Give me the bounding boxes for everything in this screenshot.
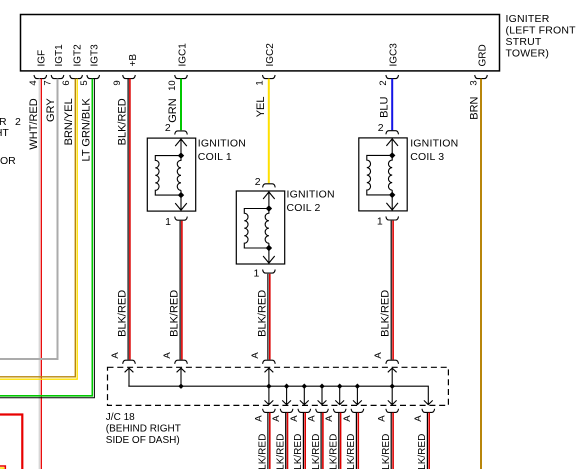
svg-text:IGT3: IGT3 (90, 44, 101, 67)
J/C 18 bottom exit at x=322: down arrow, connector, A label (307, 386, 329, 422)
ignition coil 3 box (359, 138, 407, 211)
igniter name label (506, 13, 577, 60)
wire BLK/RED from coil 3 pin 1 to J/C 18 (380, 221, 393, 360)
svg-text:10: 10 (167, 80, 178, 91)
igniter pin IGC3 (378, 43, 400, 86)
svg-text:IGC1: IGC1 (177, 43, 188, 67)
svg-text:BLK/RED: BLK/RED (169, 290, 181, 337)
svg-text:YEL: YEL (255, 97, 267, 118)
ignition coil 2 primary winding (244, 209, 269, 249)
svg-text:BLK/RED: BLK/RED (417, 434, 428, 469)
wire BLU from pin IGC3 to ignition coil 3 (379, 79, 393, 131)
J/C 18 bottom exit at x=304: down arrow, connector, A label (289, 386, 311, 422)
svg-text:COIL 2: COIL 2 (287, 202, 321, 214)
wire GRY from pin IGT1 (turns left, exits left edge) (0, 79, 58, 359)
wire YEL at bottom left corner (0, 466, 5, 469)
svg-text:BLK/RED: BLK/RED (311, 434, 322, 469)
igniter pin IGT3 (79, 44, 101, 86)
svg-text:GRN: GRN (167, 98, 179, 123)
igniter pin IGT1 (43, 44, 65, 86)
svg-text:(BEHIND RIGHT: (BEHIND RIGHT (106, 424, 181, 435)
svg-text:A: A (110, 352, 121, 359)
ignition coil 2 junction nodes (266, 205, 272, 251)
svg-text:BRN/YEL: BRN/YEL (63, 98, 75, 145)
svg-text:1: 1 (165, 216, 171, 228)
igniter pin IGC1 (167, 43, 188, 91)
J/C 18 bottom exit at x=269: down arrow, connector, A label (253, 386, 275, 422)
wire BLK/RED exiting J/C 18 at x=287 (275, 413, 287, 469)
svg-text:2: 2 (255, 176, 261, 188)
ignition coil 3 pin 1 connector (377, 215, 399, 227)
ignition coil 3 label (410, 138, 458, 163)
igniter pin IGF (28, 50, 48, 86)
igniter pin GRD (469, 44, 489, 85)
wire LT GRN/BLK from pin IGT3 (green+black pair, turns left) (0, 79, 94, 398)
svg-text:BLK/RED: BLK/RED (380, 290, 392, 337)
svg-text:A: A (307, 415, 318, 422)
svg-text:2: 2 (15, 116, 21, 128)
svg-text:+B: +B (128, 54, 139, 67)
wire BLK/RED exiting J/C 18 at x=269 (258, 413, 270, 469)
svg-text:J/C 18: J/C 18 (106, 412, 135, 423)
ignition coil 3 secondary winding with arrows (386, 138, 398, 211)
J/C 18 bottom exit at x=340: down arrow, connector, A label (324, 386, 346, 422)
svg-text:COIL 1: COIL 1 (198, 151, 232, 163)
J/C 18 internal bus wire (128, 386, 428, 404)
ignition coil 1 junction nodes (178, 152, 184, 198)
wire YEL from pin IGC2 to ignition coil 2 (255, 79, 269, 184)
ignition coil 2 label (287, 189, 335, 214)
svg-text:IGT1: IGT1 (54, 44, 65, 67)
svg-text:9: 9 (112, 80, 123, 85)
svg-text:BLK/RED: BLK/RED (116, 98, 128, 145)
svg-text:4: 4 (28, 80, 39, 85)
J/C 18 bottom exit at x=287: down arrow, connector, A label (271, 386, 293, 422)
wire BLK/RED from coil 1 pin 1 to J/C 18 (169, 221, 182, 360)
svg-text:IGC2: IGC2 (265, 43, 276, 67)
svg-text:IGT2: IGT2 (72, 44, 83, 67)
svg-text:IGC3: IGC3 (389, 43, 400, 67)
wire BRN/YEL from pin IGT2 (gold+yellow pair, turns left) (0, 79, 77, 380)
svg-text:A: A (342, 415, 353, 422)
svg-text:A: A (373, 352, 384, 359)
svg-text:A: A (250, 352, 261, 359)
wire GRN from pin IGC1 to ignition coil 1 (167, 79, 181, 131)
ignition coil 1 pin 2 connector (165, 122, 187, 135)
svg-text:BLK/RED: BLK/RED (329, 434, 340, 469)
J/C 18 top entry at x=181: connector, A label, up arrow (162, 352, 187, 387)
svg-text:TOWER): TOWER) (506, 48, 550, 60)
J/C 18 bottom exit at x=357: down arrow, connector, A label (342, 386, 364, 422)
svg-text:IGF: IGF (37, 50, 48, 67)
wire BLK/RED exiting J/C 18 at x=392 (381, 413, 393, 469)
ignition coil 3 junction nodes (389, 152, 395, 198)
igniter pin +B (112, 54, 139, 86)
svg-text:A: A (271, 415, 282, 422)
svg-text:1: 1 (377, 215, 383, 227)
svg-text:5: 5 (79, 80, 90, 85)
ignition coil 1 secondary winding with arrows (175, 138, 187, 211)
wire BLK/RED exiting J/C 18 at x=428 (417, 413, 429, 469)
svg-text:A: A (289, 415, 300, 422)
svg-text:7: 7 (43, 80, 54, 85)
J/C 18 bus junction dots (178, 384, 395, 389)
J/C 18 bottom exit at x=392: down arrow, connector, A label (377, 386, 399, 422)
J/C 18 bottom exit at x=428: down arrow, connector, A label (413, 400, 435, 421)
ignition coil 3 primary winding (367, 155, 392, 195)
svg-text:BRN: BRN (469, 96, 481, 119)
svg-text:IGNITER: IGNITER (506, 13, 550, 25)
svg-text:3: 3 (469, 80, 480, 85)
svg-text:IGNITION: IGNITION (410, 138, 458, 150)
svg-text:BLK/RED: BLK/RED (117, 290, 129, 337)
svg-text:STRUT: STRUT (506, 36, 542, 48)
ignition coil 1 primary winding (155, 156, 181, 196)
ignition coil 3 pin 2 connector (378, 122, 399, 135)
ignition coil 2 pin 2 connector (255, 176, 275, 188)
wire RED entering at left edge, turning down to bottom (0, 415, 22, 469)
wire WHT/RED from pin IGF (white+red pair, straight to bottom) (28, 79, 41, 469)
svg-text:BLK/RED: BLK/RED (293, 434, 304, 469)
svg-text:WHT/RED: WHT/RED (28, 98, 40, 149)
svg-text:LT GRN/BLK: LT GRN/BLK (81, 98, 93, 162)
ignition coil 1 pin 1 connector (165, 216, 187, 228)
svg-text:1: 1 (255, 80, 266, 85)
svg-text:IGNITION: IGNITION (198, 138, 246, 150)
wire BRN from pin GRD straight to bottom edge (469, 79, 482, 469)
svg-text:COIL 3: COIL 3 (410, 151, 444, 163)
svg-text:A: A (377, 415, 388, 422)
J/C 18 top entry at x=392: connector, A label, up arrow (373, 352, 398, 387)
ignition coil 2 box (236, 191, 284, 264)
wire BLK/RED from coil 2 pin 1 to J/C 18 (256, 274, 269, 360)
svg-text:GRY: GRY (45, 98, 57, 122)
svg-text:A: A (253, 415, 264, 422)
igniter box (left front strut tower) (21, 15, 500, 71)
svg-text:BLK/RED: BLK/RED (275, 434, 286, 469)
svg-text:2: 2 (378, 122, 384, 134)
svg-text:BLK/RED: BLK/RED (258, 434, 269, 469)
svg-text:6: 6 (61, 80, 72, 85)
svg-text:1: 1 (254, 267, 260, 279)
J/C 18 label (106, 412, 181, 446)
wire BLK/RED exiting J/C 18 at x=340 (329, 413, 341, 469)
svg-text:BLU: BLU (379, 96, 391, 117)
svg-text:A: A (413, 415, 424, 422)
wire BLK/RED from pin +B down to J/C 18 (116, 79, 130, 360)
svg-text:A: A (162, 352, 173, 359)
svg-text:BLK/RED: BLK/RED (256, 290, 268, 337)
wire BLK/RED exiting J/C 18 at x=322 (311, 413, 323, 469)
svg-text:IGNITION: IGNITION (287, 189, 335, 201)
svg-text:2: 2 (165, 122, 171, 134)
partial text fragments cut at left edge (0, 116, 21, 167)
J/C 18 top entry at x=129: connector, A label, up arrow (110, 352, 135, 387)
svg-text:BLK/RED: BLK/RED (346, 434, 357, 469)
svg-text:BLK/RED: BLK/RED (381, 434, 392, 469)
ignition coil 1 box (147, 138, 195, 211)
igniter pin IGC2 (255, 43, 277, 86)
ignition coil 2 secondary winding with arrows (263, 191, 275, 264)
svg-text:GRD: GRD (477, 44, 488, 66)
wire BLK/RED exiting J/C 18 at x=357 (346, 413, 358, 469)
ignition coil 1 label (198, 138, 246, 163)
ignition coil 2 pin 1 connector (254, 267, 276, 279)
J/C 18 top entry at x=269: connector, A label, up arrow (250, 352, 275, 387)
svg-text:2: 2 (378, 80, 389, 85)
svg-text:HT: HT (0, 127, 9, 139)
wire BLK/RED exiting J/C 18 at x=304 (293, 413, 305, 469)
svg-text:A: A (324, 415, 335, 422)
svg-text:(LEFT FRONT: (LEFT FRONT (506, 25, 577, 37)
svg-text:SIDE OF DASH): SIDE OF DASH) (106, 435, 180, 446)
svg-text:OR: OR (0, 155, 16, 167)
igniter pin IGT2 (61, 44, 83, 86)
junction connector J/C 18 dashed box (108, 367, 449, 405)
